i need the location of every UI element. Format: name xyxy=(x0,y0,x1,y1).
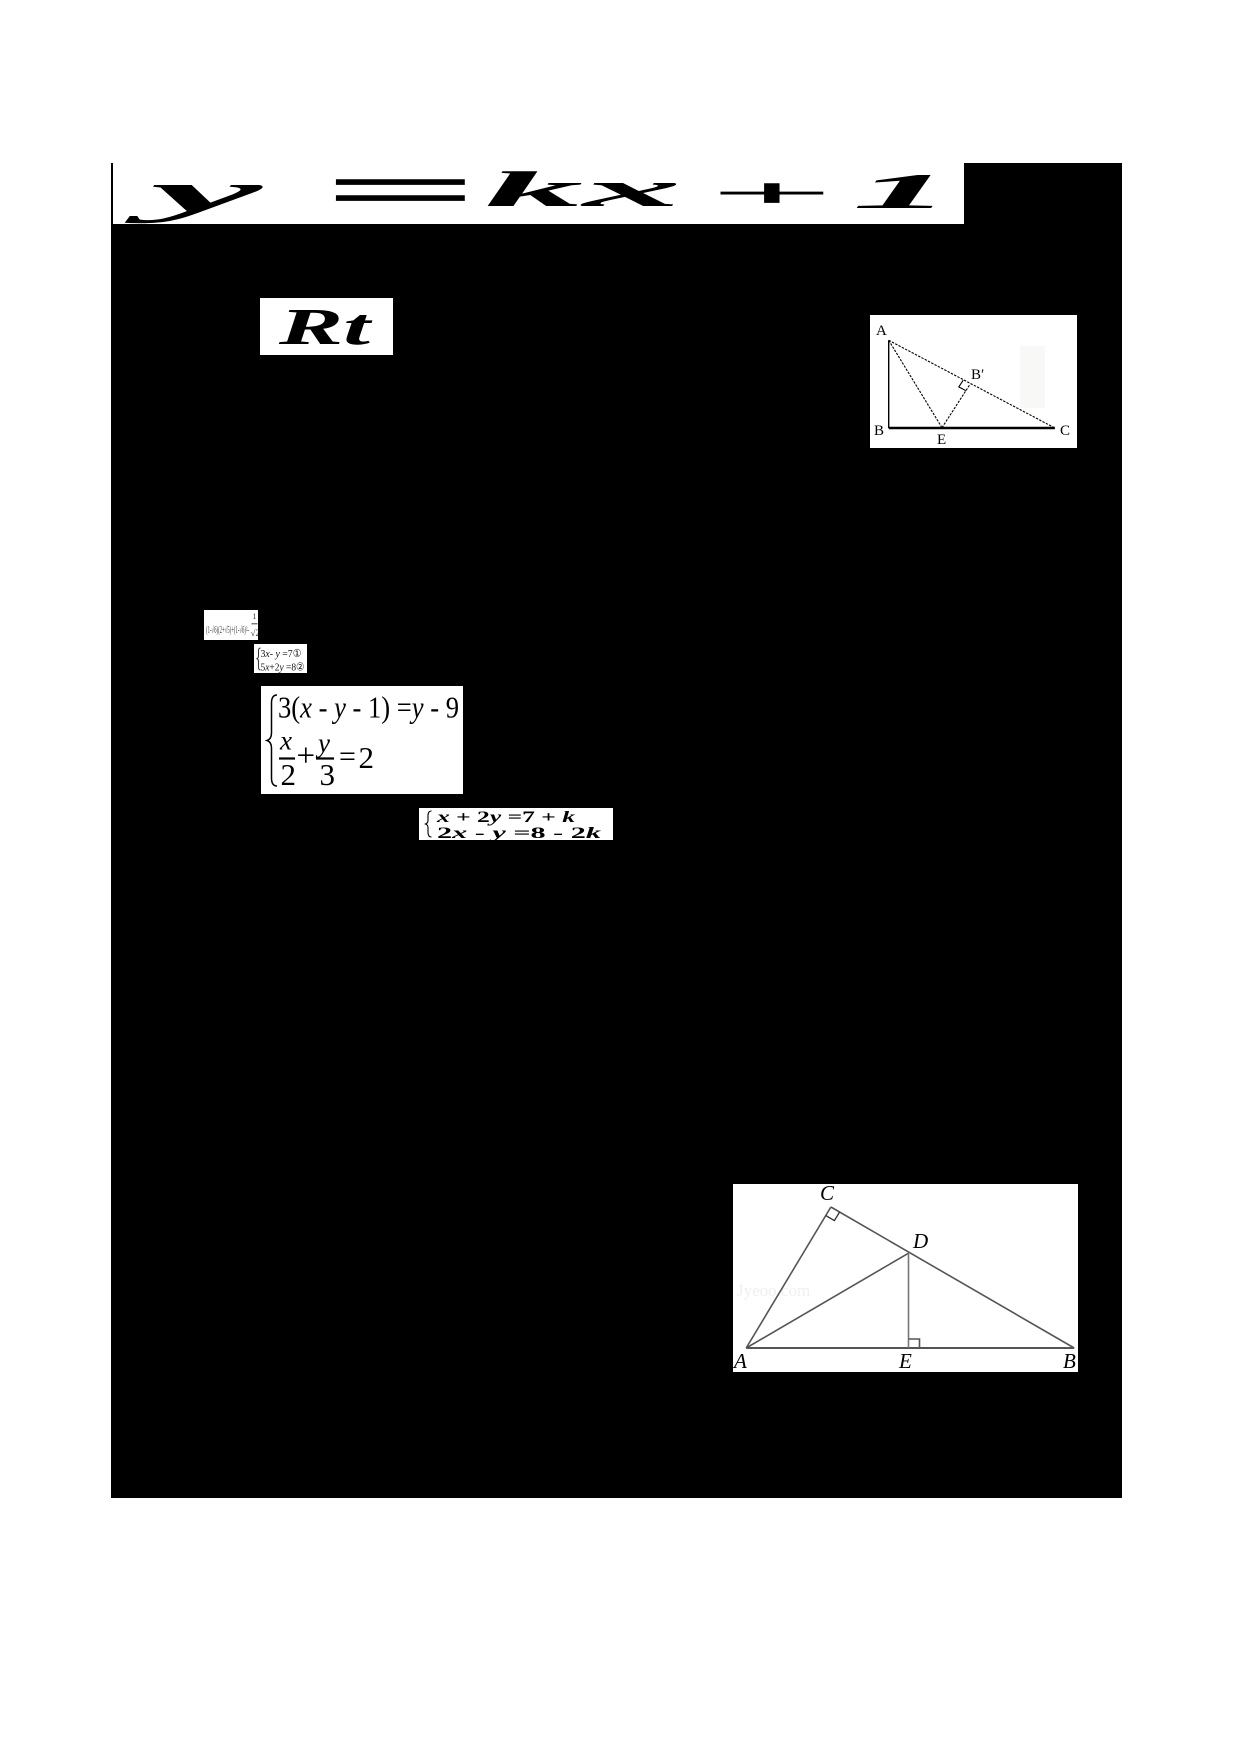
svg-text:B: B xyxy=(874,423,884,439)
side AC xyxy=(746,1207,831,1348)
svg-text:3x- y =7①: 3x- y =7① xyxy=(261,648,302,660)
svg-text:Rt: Rt xyxy=(277,299,373,356)
segment EB' xyxy=(942,384,970,428)
segment AD xyxy=(746,1253,908,1348)
svg-text:kx: kx xyxy=(485,161,681,217)
svg-text:1: 1 xyxy=(852,163,953,219)
faint watermark remnant xyxy=(1020,346,1045,408)
Rt white box xyxy=(260,298,393,355)
figure 2: triangle ABD with C, altitude DE xyxy=(733,1184,1078,1372)
svg-text:E: E xyxy=(898,1349,912,1372)
svg-text:D: D xyxy=(912,1229,928,1253)
top formula white band xyxy=(113,163,965,224)
side AB xyxy=(888,340,890,428)
svg-text:3(x - y - 1) =y - 9: 3(x - y - 1) =y - 9 xyxy=(278,690,459,725)
big system box: 3(x-y-1)=y-9, x/2+y/3=2 xyxy=(261,686,463,794)
fraction x over 2 bar xyxy=(279,757,295,759)
fraction bar xyxy=(252,623,258,625)
svg-text:2: 2 xyxy=(359,740,375,775)
svg-text:E: E xyxy=(937,432,946,448)
left brace xyxy=(426,811,432,837)
side CB through D xyxy=(831,1207,1074,1348)
svg-text:y: y xyxy=(315,728,330,758)
svg-text:√2: √2 xyxy=(251,628,259,638)
big black redacted block xyxy=(111,163,1122,1498)
right angle mark at C xyxy=(826,1212,840,1221)
right angle mark at E xyxy=(909,1339,920,1348)
svg-text:+: + xyxy=(297,738,316,774)
svg-text:B′: B′ xyxy=(971,367,984,383)
svg-text:5x+2y =8②: 5x+2y =8② xyxy=(261,662,305,674)
svg-text:2: 2 xyxy=(281,757,297,792)
svg-text:A: A xyxy=(876,323,887,339)
side AC xyxy=(889,340,1055,428)
segment AE xyxy=(889,340,942,427)
right angle mark at B' xyxy=(959,380,966,391)
svg-text:B: B xyxy=(1063,1349,1076,1372)
small box 1: tiny radical expression xyxy=(204,610,258,640)
figure 1: triangle ABC with fold point E and B' xyxy=(870,315,1077,448)
svg-text:Jyeoo.com: Jyeoo.com xyxy=(737,1281,810,1300)
side BC xyxy=(889,427,1055,430)
altitude DE xyxy=(908,1253,910,1348)
small left brace xyxy=(257,648,261,670)
svg-text:2x - y =8 - 2k: 2x - y =8 - 2k xyxy=(437,825,601,840)
svg-text:C: C xyxy=(1060,423,1070,439)
formula y = kx + 1 xyxy=(0,0,1234,300)
svg-text:C: C xyxy=(820,1184,835,1205)
big left brace xyxy=(267,695,277,786)
svg-text:(1-√6)(2+√5)+(1-√6)²-: (1-√6)(2+√5)+(1-√6)²- xyxy=(206,625,249,636)
svg-text:x: x xyxy=(279,726,292,756)
second system box: x+2y=7+k, 2x-y=8-2k xyxy=(419,808,613,840)
svg-text:3: 3 xyxy=(320,757,336,792)
Rt text xyxy=(0,0,500,400)
small box 2: system 3x-y=7, 5x+2y=8 xyxy=(254,644,307,673)
svg-text:1: 1 xyxy=(253,612,257,621)
svg-text:+: + xyxy=(707,171,833,217)
svg-text:=: = xyxy=(339,740,356,773)
svg-text:A: A xyxy=(733,1349,747,1372)
fraction y over 3 bar xyxy=(316,757,334,759)
svg-text:x + 2y =7 + k: x + 2y =7 + k xyxy=(435,809,575,826)
side AB xyxy=(746,1347,1074,1349)
